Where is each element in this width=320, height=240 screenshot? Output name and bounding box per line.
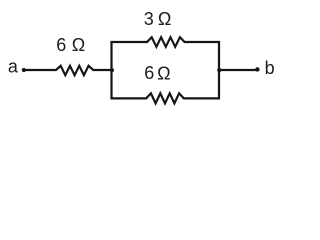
svg-text:Ω: Ω [157,64,170,84]
svg-text:a: a [8,57,19,77]
svg-text:Ω: Ω [72,35,85,55]
svg-text:6: 6 [56,35,66,55]
svg-text:Ω: Ω [158,9,171,29]
svg-text:6: 6 [144,63,154,83]
svg-text:3: 3 [144,9,154,29]
svg-text:b: b [265,58,275,78]
